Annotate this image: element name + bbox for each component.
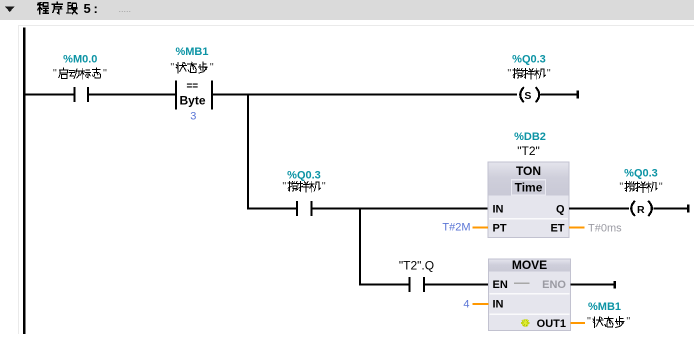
svg-text:%Q0.3: %Q0.3 <box>287 170 321 182</box>
svg-text:": " <box>659 181 663 193</box>
svg-text:"T2": "T2" <box>517 144 540 158</box>
wire contact to comparator <box>89 93 175 95</box>
svg-text:": " <box>507 68 511 80</box>
svg-text:T#2M: T#2M <box>442 222 470 234</box>
Time type dropdown <box>512 180 546 195</box>
svg-text:ENO: ENO <box>542 279 566 291</box>
svg-text:": " <box>322 181 326 193</box>
open end tick rung3 <box>614 281 617 289</box>
svg-text:%MB1: %MB1 <box>588 301 621 313</box>
svg-text:%DB2: %DB2 <box>514 131 546 143</box>
svg-text:": " <box>170 62 174 74</box>
EN-ENO dash <box>514 283 530 285</box>
svg-text:R: R <box>637 204 645 216</box>
svg-text:OUT1: OUT1 <box>537 318 566 330</box>
canvas border <box>18 25 694 26</box>
svg-text:": " <box>210 62 214 74</box>
svg-text:": " <box>103 68 107 80</box>
Q output wire <box>569 207 629 209</box>
svg-text:4: 4 <box>463 298 469 310</box>
TON timer block U: DB2 <box>488 162 569 238</box>
svg-text:3: 3 <box>190 110 196 122</box>
svg-text:Q: Q <box>556 203 565 215</box>
row separator <box>489 218 568 219</box>
svg-text:%M0.0: %M0.0 <box>63 54 97 66</box>
wire S coil to open end <box>541 93 577 95</box>
row separator EN/IN <box>490 293 570 294</box>
svg-text:%Q0.3: %Q0.3 <box>624 167 658 179</box>
wire branch to T2.Q contact <box>361 284 409 286</box>
collapse triangle <box>5 7 15 13</box>
branch junction to rung2 <box>247 93 249 209</box>
svg-text:": " <box>547 68 551 80</box>
open end tick rung1 <box>576 91 579 99</box>
coil S <box>520 88 539 102</box>
OUT1 wire <box>571 322 586 324</box>
contact M0.0 <box>73 87 75 102</box>
branch junction to rung3 <box>359 207 361 285</box>
wire rail to M0.0 contact <box>26 93 74 95</box>
comparator contact == Byte <box>175 81 177 110</box>
svg-text:IN: IN <box>493 298 504 310</box>
svg-text:S: S <box>524 90 531 102</box>
svg-text:": " <box>282 181 286 193</box>
svg-text:%MB1: %MB1 <box>175 46 208 58</box>
svg-text:PT: PT <box>493 223 507 235</box>
PT wire <box>473 227 489 229</box>
IN wire <box>473 303 489 305</box>
svg-text:": " <box>587 316 591 328</box>
ET output wire <box>569 227 585 229</box>
wire contact to MOVE block <box>425 284 488 286</box>
svg-text:5: 5 <box>84 1 91 16</box>
update star icon <box>521 319 529 327</box>
svg-text:MOVE: MOVE <box>512 258 547 272</box>
wire contact to TON block <box>313 207 488 209</box>
title 程序段 5 : <box>38 3 49 14</box>
wire R coil to open end <box>654 207 688 209</box>
svg-text:%Q0.3: %Q0.3 <box>512 54 546 66</box>
wire comparator to S coil <box>213 93 517 95</box>
open end tick rung2 <box>687 204 690 212</box>
svg-text:Byte: Byte <box>179 94 205 108</box>
svg-text::: : <box>94 1 98 16</box>
svg-text:": " <box>619 181 623 193</box>
ENO output wire <box>571 284 615 286</box>
coil R <box>631 202 652 216</box>
svg-text:==: == <box>186 81 198 92</box>
svg-text:.....: ..... <box>119 4 132 14</box>
svg-text:TON: TON <box>516 164 541 178</box>
svg-text:"T2".Q: "T2".Q <box>399 258 434 272</box>
network title bar <box>0 0 694 20</box>
power rail <box>23 28 26 335</box>
svg-text:": " <box>53 68 57 80</box>
row separator IN/OUT1 <box>490 313 570 314</box>
contact Q0.3 <box>296 201 298 216</box>
svg-text:T#0ms: T#0ms <box>588 222 622 234</box>
svg-text:EN: EN <box>493 279 508 291</box>
MOVE block <box>489 259 571 331</box>
svg-text:": " <box>626 316 630 328</box>
svg-text:IN: IN <box>493 203 504 215</box>
wire branch to Q0.3 contact <box>249 207 296 209</box>
contact T2.Q <box>409 277 411 292</box>
svg-text:ET: ET <box>550 223 564 235</box>
svg-text:Time: Time <box>515 180 543 194</box>
